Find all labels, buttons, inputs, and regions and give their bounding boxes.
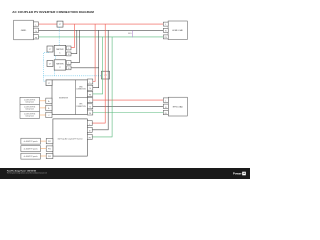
PV inverter AC terminal N	[87, 127, 92, 132]
EPS wire N to EPS load	[93, 105, 164, 107]
svg-text:+: +	[243, 172, 245, 176]
3rd party PV inverter box	[53, 119, 87, 156]
svg-text:PE: PE	[165, 37, 167, 39]
inverter grid terminal L	[87, 79, 92, 84]
EPS load box	[168, 97, 187, 116]
comm dashed: meter 2 CT down to inverter comm port	[43, 61, 46, 82]
svg-text:L: L	[68, 48, 69, 50]
grid terminal PE	[33, 35, 38, 39]
PV wire 2 (orange)	[40, 148, 46, 150]
meter 1 L tap wire (red)	[71, 24, 74, 48]
inverter EPS terminal L	[87, 98, 92, 103]
svg-text:EPS LOAD: EPS LOAD	[173, 106, 184, 109]
inverter comm port box	[46, 80, 52, 86]
svg-text:B+: B+	[48, 101, 50, 103]
inverter battery terminal B+	[46, 98, 52, 103]
svg-text:INVERTER: INVERTER	[59, 98, 69, 100]
svg-text:L: L	[90, 82, 91, 84]
svg-text:PE: PE	[89, 113, 91, 115]
grid terminal N	[33, 28, 38, 32]
PV inverter DC input PV1	[46, 138, 53, 143]
svg-text:PE: PE	[35, 37, 37, 39]
comm dashed: meter 2 down to CT2 bus	[43, 71, 101, 76]
inverter battery terminal B-	[46, 105, 52, 110]
PV string 3 box	[21, 153, 41, 159]
svg-text:GRID: GRID	[21, 30, 27, 32]
PV inverter feed wire L (red)	[92, 24, 105, 123]
MEN link N-PE (purple)	[132, 30, 134, 37]
PV string 2 box	[21, 146, 41, 152]
grid drop wire N from bus to inverter	[93, 30, 99, 87]
EPS load terminal N	[163, 104, 168, 108]
PV inverter AC terminal PE	[87, 134, 92, 139]
inverter EPS terminal N	[87, 104, 92, 109]
svg-text:CT: CT	[48, 83, 50, 85]
meter 1 terminal L	[66, 46, 71, 50]
CT1 grid current transformer on wire L	[57, 21, 63, 27]
svg-text:PV2: PV2	[48, 149, 51, 151]
svg-text:CT: CT	[59, 24, 61, 26]
svg-text:4x 400W PV panels: 4x 400W PV panels	[24, 141, 38, 143]
grid drop wire L (red) from bus to inverter	[93, 24, 95, 81]
PV inverter DC input PV2	[46, 146, 53, 151]
PV string 1 box	[21, 138, 41, 144]
svg-text:CT: CT	[49, 49, 51, 51]
svg-text:4x 400W PV panels: 4x 400W PV panels	[24, 156, 38, 158]
svg-text:CT: CT	[49, 63, 51, 65]
comm dashed: meter CT chain left column	[43, 52, 48, 61]
svg-text:PV1: PV1	[48, 141, 51, 143]
meter 1 N tap wire	[71, 30, 77, 53]
comm dashed: meter 1 to meter 2	[54, 56, 56, 60]
svg-text:4x 400W PV panels: 4x 400W PV panels	[24, 148, 38, 150]
svg-text:3rd Party AC Coupled PV Invert: 3rd Party AC Coupled PV Inverter	[57, 137, 83, 140]
meter 2 box	[54, 60, 65, 70]
svg-text:L: L	[165, 24, 166, 26]
home load box	[168, 21, 187, 40]
svg-text:L: L	[89, 124, 90, 126]
svg-text:PE: PE	[89, 138, 91, 140]
grid supply box	[14, 20, 34, 40]
svg-text:EPS: EPS	[80, 104, 83, 106]
svg-text:L: L	[35, 25, 36, 27]
svg-text:AC COUPLED PV INVERTER CONNECT: AC COUPLED PV INVERTER CONNECTION DIAGRA…	[12, 10, 94, 14]
svg-text:PE: PE	[165, 113, 167, 115]
svg-text:METER: METER	[56, 64, 64, 66]
svg-text:CONNECTION: CONNECTION	[76, 106, 85, 108]
meter 2 terminal L	[66, 61, 71, 65]
PV inverter DC input PV3	[46, 153, 53, 158]
battery inverter box	[52, 80, 87, 115]
svg-text:L: L	[68, 63, 69, 65]
footer bar	[0, 168, 250, 179]
meter 2 L tap wire	[71, 30, 80, 62]
svg-text:4x 48V LiFePO4: 4x 48V LiFePO4	[24, 114, 35, 116]
PV inverter feed wire PE (green)	[92, 37, 112, 137]
EPS wire L (red) to EPS load	[93, 99, 164, 101]
meter 2 CT box	[47, 61, 53, 67]
svg-text:4x 48V LiFePO4: 4x 48V LiFePO4	[24, 106, 35, 108]
meter 2 terminal N	[66, 66, 71, 70]
inverter internal divider	[75, 80, 77, 115]
inverter grid terminal PE	[87, 91, 92, 96]
PV wire 3 (orange)	[40, 155, 46, 157]
meter 1 box	[54, 45, 65, 55]
svg-text:Power: Power	[233, 172, 243, 176]
wire L (grid live, red)	[39, 23, 164, 25]
inverter EPS terminal PE	[87, 110, 92, 115]
meter 2 N tap wire	[71, 67, 99, 69]
svg-text:4x 48V LiFePO4: 4x 48V LiFePO4	[24, 99, 35, 101]
battery wire 1 (orange)	[40, 100, 46, 102]
svg-text:L: L	[165, 101, 166, 103]
svg-text:CONNECTION: CONNECTION	[76, 89, 85, 91]
home load terminal N	[163, 28, 168, 32]
CT2 current transformer on PV inverter feed	[102, 71, 110, 79]
meter 1 CT box	[47, 46, 53, 52]
comm dashed: CT1 to meter 1	[58, 27, 60, 45]
EPS load terminal PE	[163, 110, 168, 114]
home load terminal L	[163, 22, 168, 26]
battery bank box	[20, 97, 40, 118]
PV wire 1 (orange)	[40, 140, 46, 142]
wire PE (grid earth, green)	[39, 36, 164, 38]
svg-text:GRID: GRID	[79, 86, 82, 88]
PV inverter AC terminal L	[87, 121, 92, 126]
EPS wire PE (green) to EPS load	[93, 112, 164, 114]
svg-text:PE: PE	[89, 94, 91, 96]
home load terminal PE	[163, 35, 168, 39]
meter 1 terminal N	[66, 52, 71, 56]
grid drop wire PE (green) from bus to inverter	[93, 37, 103, 94]
grid terminal L	[33, 22, 38, 26]
svg-text:PV3: PV3	[48, 156, 51, 158]
svg-text:METER: METER	[56, 49, 64, 51]
wire N (grid neutral, black)	[39, 29, 164, 31]
inverter grid terminal N	[87, 85, 92, 90]
PV inverter feed wire N	[92, 30, 108, 130]
battery wire 3 (orange)	[40, 114, 46, 116]
inverter battery terminal COM	[46, 112, 52, 117]
battery wire 2 (orange)	[40, 107, 46, 109]
EPS load terminal L	[163, 98, 168, 102]
svg-text:L: L	[90, 101, 91, 103]
svg-text:HOME LOAD: HOME LOAD	[172, 29, 183, 32]
